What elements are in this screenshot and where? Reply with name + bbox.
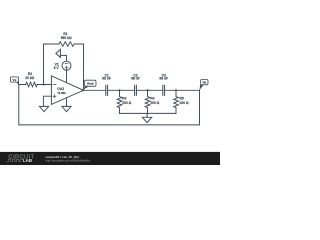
- svg-text:68 nF: 68 nF: [131, 76, 140, 80]
- svg-text:560 kΩ: 560 kΩ: [61, 36, 72, 40]
- svg-text:Vs: Vs: [13, 78, 17, 82]
- svg-text:68 nF: 68 nF: [102, 76, 111, 80]
- svg-text:20 kΩ: 20 kΩ: [25, 76, 34, 80]
- svg-text:68 nF: 68 nF: [159, 76, 168, 80]
- svg-text:6 V: 6 V: [54, 66, 60, 70]
- svg-text:200 Ω: 200 Ω: [180, 101, 189, 105]
- svg-text:Vb: Vb: [202, 81, 206, 85]
- svg-text:TL081: TL081: [57, 91, 66, 95]
- svg-text:http://circuitlab.com/c/8yh3r6: http://circuitlab.com/c/8yh3r66ab6q: [46, 158, 91, 162]
- svg-text:Vout: Vout: [87, 81, 94, 85]
- svg-text:200 Ω: 200 Ω: [150, 101, 159, 105]
- svg-text:LAB: LAB: [23, 158, 32, 163]
- svg-text:200 Ω: 200 Ω: [122, 101, 131, 105]
